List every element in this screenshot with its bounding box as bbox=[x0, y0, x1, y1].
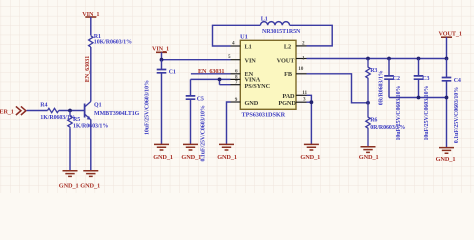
svg-text:C2: C2 bbox=[393, 76, 400, 82]
wire C4 to ground bbox=[446, 81, 448, 147]
svg-text:EN_63031: EN_63031 bbox=[84, 56, 91, 82]
capacitor C4 bbox=[442, 59, 461, 144]
capacitor C5 bbox=[186, 79, 207, 161]
wire Q1 emitter to ground bbox=[90, 120, 92, 171]
node junction VOUT riser bbox=[445, 57, 449, 61]
svg-text:VIN_1: VIN_1 bbox=[152, 45, 169, 52]
svg-text:GND_1: GND_1 bbox=[300, 154, 320, 161]
svg-text:L1: L1 bbox=[261, 17, 268, 23]
wire C5 to ground bbox=[190, 99, 192, 144]
wire C3 to bottom bus bbox=[418, 79, 420, 97]
pin 1 stub bbox=[296, 55, 307, 61]
wire C1 to ground bbox=[161, 73, 163, 144]
wire VIN_1 to pin 5 bbox=[162, 52, 231, 59]
power port VOUT_1 bbox=[439, 31, 462, 38]
node junction VINA/PS-SYNC bbox=[218, 78, 222, 82]
wire R4 to Q1 base bbox=[59, 110, 85, 112]
svg-text:GND_1: GND_1 bbox=[59, 183, 79, 190]
svg-text:10uF/25V/C0603/10%: 10uF/25V/C0603/10% bbox=[144, 80, 150, 135]
inductor L1 bbox=[260, 17, 301, 36]
wire R5 to ground bbox=[69, 130, 71, 171]
svg-text:L2: L2 bbox=[284, 44, 291, 51]
power port VIN_1 (middle) bbox=[152, 45, 169, 52]
wire port to R4 bbox=[27, 110, 48, 112]
svg-text:GND_1: GND_1 bbox=[436, 156, 456, 163]
svg-text:C3: C3 bbox=[422, 76, 429, 82]
ground GND_1 (C5) bbox=[181, 144, 201, 161]
resistor R3 bbox=[366, 59, 385, 106]
svg-text:NR3015T1R5N: NR3015T1R5N bbox=[262, 29, 301, 35]
pin 4 stub bbox=[231, 41, 241, 47]
svg-text:10uF/25V/C0603/10%: 10uF/25V/C0603/10% bbox=[396, 86, 402, 141]
port WER_1 bbox=[0, 106, 26, 115]
resistor R5 bbox=[68, 111, 109, 131]
pin 6 stub bbox=[231, 69, 241, 75]
svg-text:10uF/25V/C0603/10%: 10uF/25V/C0603/10% bbox=[424, 86, 430, 141]
pin 11 stub bbox=[296, 90, 308, 96]
ground GND_1 (C4) bbox=[436, 148, 456, 163]
transistor Q1 bbox=[85, 102, 140, 120]
IC U1 TPS63031DSKR bbox=[240, 34, 296, 119]
svg-text:MMBT3904LT1G: MMBT3904LT1G bbox=[94, 111, 140, 117]
svg-text:0.1uF/25V/C0603/10%: 0.1uF/25V/C0603/10% bbox=[454, 87, 460, 143]
wire inductor to pin 2 bbox=[290, 25, 333, 46]
node junction C2 top bbox=[387, 57, 391, 61]
svg-text:FB: FB bbox=[284, 71, 293, 78]
node junction PAD/PGND bbox=[310, 100, 314, 104]
ground GND_1 (R5) bbox=[59, 171, 79, 190]
svg-text:R4: R4 bbox=[40, 103, 47, 109]
node junction VIN/C1 bbox=[160, 58, 164, 62]
svg-text:R3: R3 bbox=[370, 68, 377, 74]
svg-text:GND: GND bbox=[245, 100, 259, 107]
svg-text:0R/R0603/1%: 0R/R0603/1% bbox=[379, 70, 385, 105]
wire FB pin 10 bbox=[307, 74, 369, 103]
svg-text:10K/R0603/1%: 10K/R0603/1% bbox=[94, 39, 132, 45]
svg-text:C1: C1 bbox=[169, 69, 176, 75]
svg-text:U1: U1 bbox=[240, 34, 248, 41]
capacitor C1 bbox=[144, 60, 176, 135]
ground GND_1 (C1) bbox=[153, 144, 173, 161]
svg-text:10: 10 bbox=[298, 66, 303, 72]
svg-text:C5: C5 bbox=[197, 96, 204, 102]
svg-text:GND_1: GND_1 bbox=[217, 154, 237, 161]
pin 10 stub bbox=[296, 66, 307, 74]
capacitor C2 bbox=[384, 59, 402, 141]
svg-text:0.1uF/25V/C0603/10%: 0.1uF/25V/C0603/10% bbox=[200, 105, 206, 161]
wire EN pin 6 bbox=[191, 73, 231, 75]
node junction FB/R3/R6 bbox=[366, 101, 370, 105]
pin 7 stub bbox=[231, 80, 241, 86]
wire PS/SYNC pin 7 bbox=[220, 79, 231, 84]
svg-text:PS/SYNC: PS/SYNC bbox=[245, 83, 271, 90]
svg-text:R5: R5 bbox=[73, 117, 80, 123]
wire pin 9 to ground bbox=[227, 102, 231, 144]
pin 9 stub bbox=[231, 97, 241, 103]
svg-text:TPS63031DSKR: TPS63031DSKR bbox=[242, 111, 286, 118]
svg-text:VIN: VIN bbox=[245, 57, 257, 64]
node junction R3 top bbox=[366, 57, 370, 61]
ground GND_1 (PGND) bbox=[300, 144, 320, 161]
pin 2 stub bbox=[296, 41, 307, 47]
wire C2 to bottom bus bbox=[389, 79, 447, 97]
svg-text:R6: R6 bbox=[370, 117, 377, 123]
ground GND_1 (pin 9) bbox=[217, 144, 237, 161]
wire PAD pin 11 bbox=[307, 95, 312, 102]
node junction C3 top bbox=[417, 57, 421, 61]
wire R1 to Q1 collector bbox=[90, 47, 92, 102]
svg-text:PGND: PGND bbox=[278, 100, 296, 107]
svg-text:GND_1: GND_1 bbox=[153, 154, 173, 161]
svg-text:GND_1: GND_1 bbox=[80, 183, 100, 190]
power port VIN_1 (left, above R1) bbox=[82, 11, 99, 18]
svg-text:VOUT: VOUT bbox=[277, 57, 296, 64]
svg-text:GND_1: GND_1 bbox=[181, 154, 201, 161]
wire pin 4 to inductor loop bbox=[213, 25, 261, 46]
node junction bottom bus corner bbox=[445, 96, 449, 100]
resistor R4 bbox=[40, 103, 75, 121]
svg-text:GND_1: GND_1 bbox=[359, 154, 379, 161]
wire VOUT bus bbox=[307, 37, 447, 58]
node junction C3 bottom bbox=[417, 96, 421, 100]
svg-text:C4: C4 bbox=[454, 78, 461, 84]
capacitor C3 bbox=[414, 59, 430, 141]
ground GND_1 (R6) bbox=[359, 147, 379, 161]
wire VIN_1 bar to R1 bbox=[90, 17, 92, 36]
pin 5 stub bbox=[228, 54, 240, 60]
wire PGND pin 3 bbox=[307, 102, 312, 144]
pin 3 stub bbox=[296, 96, 307, 102]
node junction R4/R5/base bbox=[68, 109, 72, 113]
ground GND_1 (Q1 emitter) bbox=[80, 171, 100, 190]
resistor R1 bbox=[89, 34, 132, 47]
svg-text:WER_1: WER_1 bbox=[0, 109, 14, 116]
wire VINA pin 8 bbox=[191, 78, 231, 80]
svg-text:Q1: Q1 bbox=[94, 103, 102, 109]
pin 8 stub bbox=[231, 74, 241, 80]
svg-text:L1: L1 bbox=[245, 44, 252, 51]
resistor R6 bbox=[366, 103, 405, 147]
